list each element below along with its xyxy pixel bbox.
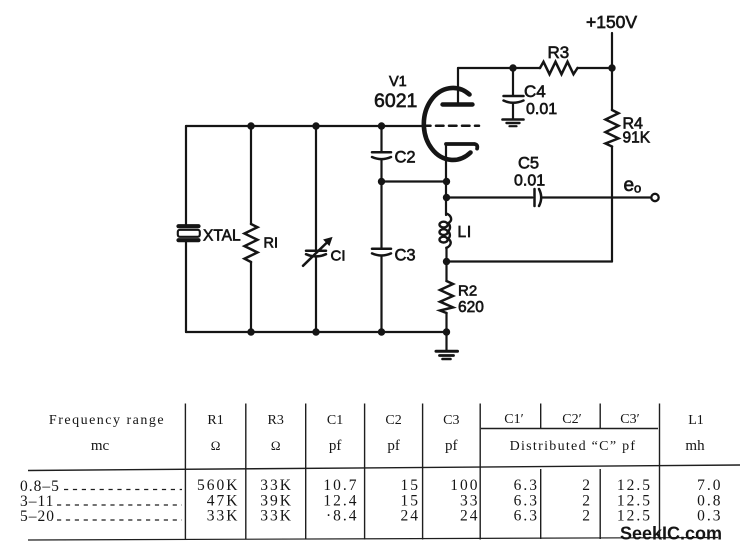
tube V1 plate [443, 102, 473, 106]
wire R1 branch upper [250, 126, 252, 224]
wire B+ supply drop [611, 33, 613, 110]
svg-text:C3: C3 [443, 413, 459, 428]
svg-text:2: 2 [582, 508, 592, 525]
svg-text:0.01: 0.01 [514, 173, 545, 190]
node C2 bottom [378, 178, 385, 185]
inductor L1 [440, 214, 452, 249]
node cathode / C2 link [443, 178, 450, 185]
svg-text:pf: pf [329, 438, 342, 454]
svg-text:e: e [624, 175, 635, 196]
table column rule 8 upper [599, 404, 601, 429]
node top rail / C2 [378, 122, 385, 129]
ground (main, below R2) [436, 351, 458, 359]
resistor R4 [606, 110, 619, 147]
svg-text:15: 15 [401, 477, 421, 494]
svg-text:5–20: 5–20 [20, 508, 55, 525]
wire top rail (grid bus) [186, 125, 424, 127]
wire plate node to R3 [458, 67, 540, 69]
tube V1 grid (dashed) [423, 124, 479, 127]
output terminal eo [651, 194, 658, 201]
table column rule 2 [245, 404, 247, 540]
svg-text:mc: mc [91, 438, 110, 454]
svg-text:C1: C1 [327, 413, 343, 428]
svg-text:+150V: +150V [586, 12, 637, 32]
capacitor C1 (variable) [303, 238, 332, 266]
svg-text:C1′: C1′ [504, 412, 523, 427]
crystal XTAL [178, 226, 200, 240]
node bottom rail / R1 [247, 328, 254, 335]
svg-text:Frequency range: Frequency range [49, 413, 165, 428]
capacitor C3 [372, 249, 391, 256]
node bottom rail / C3 [378, 328, 385, 335]
wire C2 bottom to cathode link [382, 180, 447, 182]
wire C1 branch upper [315, 126, 317, 250]
table column rule 5 [422, 404, 424, 540]
svg-text:R2: R2 [458, 283, 477, 300]
table column rule 7 lower [540, 469, 542, 539]
svg-text:0.3: 0.3 [697, 508, 722, 525]
svg-text:mh: mh [685, 438, 705, 454]
wire C4 lower lead to ground [512, 104, 514, 119]
wire L1 bottom to R2 [445, 248, 447, 282]
table column rule 6 [479, 404, 481, 540]
wire R4 bottom down [611, 147, 613, 262]
svg-text:Ω: Ω [211, 438, 221, 453]
svg-text:C3′: C3′ [620, 412, 639, 427]
svg-text:Distributed “C” pf: Distributed “C” pf [510, 439, 637, 454]
svg-text:pf: pf [387, 438, 400, 454]
capacitor C2 [372, 152, 391, 159]
wire left column (XTAL branch) [185, 126, 187, 225]
svg-text:Ω: Ω [271, 438, 281, 453]
svg-text:C3: C3 [395, 247, 416, 265]
svg-text:R1: R1 [207, 413, 223, 428]
svg-text:560K: 560K [197, 477, 239, 494]
svg-text:XTAL: XTAL [203, 228, 241, 245]
svg-text:V1: V1 [389, 74, 407, 90]
node bottom rail / C1 [312, 328, 319, 335]
wire output line cathode to C5 [447, 196, 533, 198]
resistor R2 [440, 281, 453, 313]
wire plate lead up [457, 68, 459, 105]
svg-text:12.5: 12.5 [617, 477, 652, 494]
wire C4 upper lead [512, 68, 514, 95]
node cathode / output [443, 194, 450, 201]
svg-text:C2: C2 [385, 413, 401, 428]
wire C2 to C3 segment [380, 160, 382, 248]
table header separator rule [28, 465, 740, 471]
svg-text:33K: 33K [207, 508, 240, 525]
wire C5 to output terminal [542, 196, 652, 198]
svg-text:6021: 6021 [374, 90, 417, 112]
svg-text:C2′: C2′ [562, 412, 581, 427]
svg-text:6.3: 6.3 [514, 508, 539, 525]
node bottom rail / R2 ground [443, 328, 450, 335]
svg-text:620: 620 [458, 299, 484, 316]
wire bottom rail to ground [445, 332, 447, 350]
wire R4 branch to L1 bottom [447, 260, 613, 262]
svg-text:33K: 33K [260, 477, 293, 494]
svg-text:100: 100 [450, 477, 479, 494]
capacitor C5 [535, 189, 542, 206]
table column rule 1 [184, 404, 186, 540]
svg-text:L1: L1 [688, 413, 704, 428]
tube V1 cathode [446, 144, 477, 149]
wire R3 to B+ node [578, 67, 613, 69]
svg-text:6.3: 6.3 [514, 477, 539, 494]
resistor R3 [540, 62, 578, 74]
svg-text:RI: RI [264, 236, 279, 252]
table column rule 9 [659, 404, 661, 540]
svg-text:o: o [634, 181, 641, 196]
node plate / C4 [509, 64, 516, 71]
svg-text:C2: C2 [395, 149, 416, 167]
wire cathode lead down [445, 144, 447, 215]
svg-text:24: 24 [401, 508, 421, 525]
svg-text:0.01: 0.01 [526, 101, 557, 118]
svg-text:12.5: 12.5 [617, 508, 652, 525]
svg-text:pf: pf [445, 438, 458, 454]
svg-text:10.7: 10.7 [323, 477, 358, 494]
wire C1 branch lower [315, 257, 317, 332]
node L1 bottom [443, 258, 450, 265]
tube V1 envelope [424, 88, 471, 160]
svg-text:2: 2 [582, 477, 592, 494]
node top rail / R1 [247, 122, 254, 129]
table column rule 4 [364, 404, 366, 540]
capacitor C4 [504, 96, 524, 103]
table row1 leader dashes [64, 489, 182, 491]
svg-text:C4: C4 [524, 82, 546, 101]
svg-text:33K: 33K [260, 508, 293, 525]
svg-text:24: 24 [460, 508, 480, 525]
wire C3 branch lower [380, 256, 382, 332]
svg-text:CI: CI [331, 248, 346, 265]
table rule under distributed C labels [481, 428, 658, 430]
svg-text:LI: LI [458, 224, 473, 241]
svg-text:R3: R3 [268, 413, 284, 428]
svg-text:C5: C5 [518, 155, 539, 173]
node B+ / R4 [608, 64, 615, 71]
table column rule 7 upper [540, 404, 542, 429]
svg-text:R3: R3 [548, 43, 570, 62]
node top rail / C1 [312, 122, 319, 129]
wire R2 to bottom rail [445, 313, 447, 332]
svg-text:7.0: 7.0 [697, 477, 722, 494]
table bottom rule [28, 538, 718, 541]
resistor R1 [245, 224, 258, 262]
wire R1 branch lower [250, 262, 252, 332]
table row3 leader dashes [57, 519, 182, 521]
svg-text:91K: 91K [623, 130, 651, 147]
wire bottom rail (ground bus) [186, 331, 447, 333]
table row2 leader dashes [57, 504, 182, 506]
wire C2 branch upper [380, 126, 382, 152]
table column rule 8 lower [599, 469, 601, 539]
svg-text:SeekIC.com: SeekIC.com [620, 524, 722, 544]
ground (C4) [503, 120, 524, 127]
table column rule 3 [305, 404, 307, 540]
svg-text:·8.4: ·8.4 [326, 508, 359, 525]
